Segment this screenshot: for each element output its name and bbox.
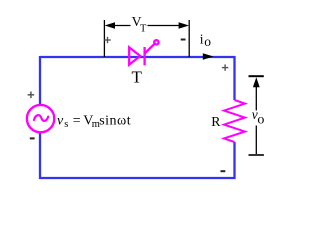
- VT arrow line right: [148, 25, 182, 27]
- svg-text:=: =: [73, 114, 81, 129]
- svg-text:v: v: [57, 114, 64, 129]
- AC source vs: [27, 105, 54, 132]
- source + polarity: [28, 92, 35, 99]
- VT measurement left tick: [103, 20, 105, 57]
- resistor R: [224, 100, 245, 142]
- svg-text:i: i: [200, 31, 204, 46]
- svg-text:o: o: [257, 113, 264, 128]
- vo measurement top bar: [249, 75, 264, 77]
- thyristor T: [129, 40, 158, 65]
- vo measurement line upper: [255, 84, 257, 110]
- VT measurement right tick: [188, 20, 190, 57]
- wire right lower: [233, 142, 235, 179]
- svg-text:o: o: [204, 34, 211, 49]
- vo arrowhead up: [253, 77, 260, 87]
- VT arrowhead left: [105, 22, 115, 28]
- io current arrowhead: [203, 53, 214, 60]
- wire top: [40, 56, 235, 58]
- svg-text:T: T: [140, 24, 147, 35]
- VT arrowhead right: [179, 22, 189, 28]
- wire right upper: [233, 56, 235, 100]
- svg-text:T: T: [132, 68, 143, 87]
- VT - polarity: [181, 39, 186, 41]
- wire left: [39, 56, 41, 179]
- VT + polarity: [104, 37, 110, 43]
- VT arrow line left: [113, 25, 131, 27]
- resistor + polarity: [222, 64, 228, 70]
- svg-text:s: s: [64, 119, 68, 130]
- resistor - polarity: [221, 170, 226, 172]
- svg-text:sinωt: sinωt: [99, 114, 131, 129]
- svg-text:R: R: [211, 114, 221, 129]
- wire bottom: [39, 177, 236, 179]
- vo measurement bottom bar: [249, 154, 264, 156]
- source - polarity: [30, 137, 35, 139]
- vo measurement line lower: [255, 126, 257, 156]
